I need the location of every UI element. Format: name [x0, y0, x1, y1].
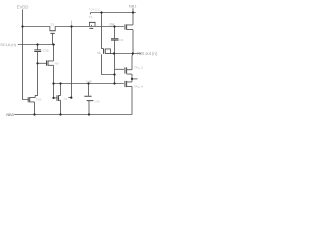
wire T5 source down	[53, 65, 55, 98]
wire top rail	[23, 27, 124, 31]
node dot TN1 gate	[52, 97, 54, 99]
wire QA cap vertical upper	[114, 27, 116, 39]
transistor T5 bars	[47, 60, 49, 65]
wire T3 source down to T6	[132, 30, 133, 70]
transistor T4 bars	[104, 49, 106, 54]
node dot SCLA cap	[36, 43, 38, 45]
transistor T3 bars	[125, 24, 127, 29]
wire capacitor C4B top lead	[88, 84, 90, 96]
node dot mid rail TN1	[59, 82, 61, 84]
wire NB1 corner stub down	[90, 13, 92, 15]
svg-text:C4b: C4b	[94, 100, 100, 104]
node dot x114 y74.5	[113, 73, 115, 75]
node dot bottom TN2	[33, 113, 35, 115]
wire NB1 label stub	[132, 8, 134, 12]
wire T2 legs	[90, 22, 96, 26]
wire SCLA rail	[18, 44, 55, 46]
node dot QA junction	[113, 25, 115, 27]
svg-text:EVDD: EVDD	[17, 4, 29, 9]
node dot x114 y83.5	[113, 82, 115, 84]
wire T3 drain up to NB1	[132, 13, 134, 25]
wire faint stub above x71 dot	[71, 21, 73, 26]
svg-text:N6: N6	[55, 61, 59, 65]
svg-text:NB1: NB1	[129, 4, 138, 9]
node dot mid rail left	[52, 82, 54, 84]
transistor T1 bars	[50, 31, 56, 34]
wire vertical below T4	[102, 54, 115, 74]
transistor TN2 bars	[28, 97, 30, 102]
wire TN1 source down to bottom rail	[60, 100, 62, 114]
node dot T6/T7	[131, 78, 133, 80]
node dot bottom TN1	[59, 113, 61, 115]
wire QA cap vertical lower	[114, 41, 116, 84]
wire T6 source down	[131, 74, 133, 79]
wire cap C1B top lead	[37, 45, 39, 50]
wire TN2 leads	[30, 98, 36, 102]
wire TN2 source down	[34, 102, 36, 115]
wire T4 leads	[105, 49, 114, 54]
node dot RBI right	[132, 52, 134, 54]
svg-text:N8: N8	[97, 51, 101, 55]
svg-text:C3: C3	[119, 38, 123, 42]
node dot mid rail cap	[87, 82, 89, 84]
wire stub left at its end	[68, 97, 71, 99]
node dot RBI left	[113, 52, 115, 54]
capacitor C1B plates	[34, 50, 41, 52]
wire T5 drain up to SCLA	[53, 45, 55, 61]
svg-text:SCLA (n): SCLA (n)	[0, 42, 16, 47]
node dot T5 gate junction	[36, 62, 38, 64]
wire TN1 gate lead	[54, 97, 58, 99]
wire vertical x71.5	[71, 27, 73, 98]
wire cap C1B bottom lead long	[35, 52, 37, 98]
svg-text:TN2: TN2	[36, 98, 42, 102]
wire vertical from NB1 left dot	[102, 13, 104, 49]
wire TN1 leads	[59, 96, 61, 101]
node dot x71 end	[70, 97, 72, 99]
node dot mid top rail	[70, 25, 72, 27]
transistor TN1 bars	[57, 95, 59, 101]
svg-text:RBI out (n): RBI out (n)	[137, 51, 157, 56]
wire T7 drain up	[131, 79, 133, 82]
wire T7 source down to bottom rail	[131, 86, 133, 114]
wire T7 leads	[127, 82, 132, 87]
transistor T7 bars	[125, 81, 127, 87]
wire RBI out rail	[106, 53, 141, 55]
svg-text:T1: T1	[50, 23, 54, 27]
wire mid rail	[54, 83, 124, 85]
capacitor C3 plates	[111, 39, 119, 40]
transistor T6 bars	[125, 67, 127, 73]
node dot NB1 right	[132, 11, 134, 13]
wire NB1 rail	[91, 12, 136, 14]
capacitor C4B plates	[84, 96, 93, 100]
svg-text:NB3: NB3	[6, 113, 13, 117]
wire T1 gate lead	[52, 33, 54, 44]
wire TN1 drain up to rail	[60, 84, 62, 96]
wire EVDD vertical	[23, 9, 29, 99]
transistor T2 bars	[89, 22, 96, 28]
node dot NB1 left	[100, 11, 102, 13]
node dot EVDD/top-rail	[21, 25, 23, 27]
svg-text:TAL_3: TAL_3	[134, 65, 143, 69]
wire T3 leads	[127, 25, 133, 30]
wire bottom rail	[14, 114, 132, 116]
svg-text:C1B: C1B	[43, 49, 49, 53]
wire T5 gate lead	[38, 62, 47, 64]
node dot bottom cap	[88, 113, 90, 115]
svg-text:QA: QA	[110, 23, 116, 27]
svg-text:TQ4 1(1): TQ4 1(1)	[89, 8, 101, 12]
wire T6 gate branch	[115, 68, 124, 70]
wire stub right of T6/T7 dot	[132, 78, 138, 80]
wire T5 leads	[48, 61, 54, 65]
svg-text:N1: N1	[64, 97, 68, 101]
node dot SCLA right	[52, 43, 54, 45]
svg-text:C4B: C4B	[86, 80, 92, 84]
wire T6 leads	[127, 70, 132, 74]
wire capacitor C4B bottom lead	[88, 101, 90, 115]
svg-text:T2: T2	[89, 15, 93, 19]
svg-text:TAL_4: TAL_4	[134, 84, 143, 88]
